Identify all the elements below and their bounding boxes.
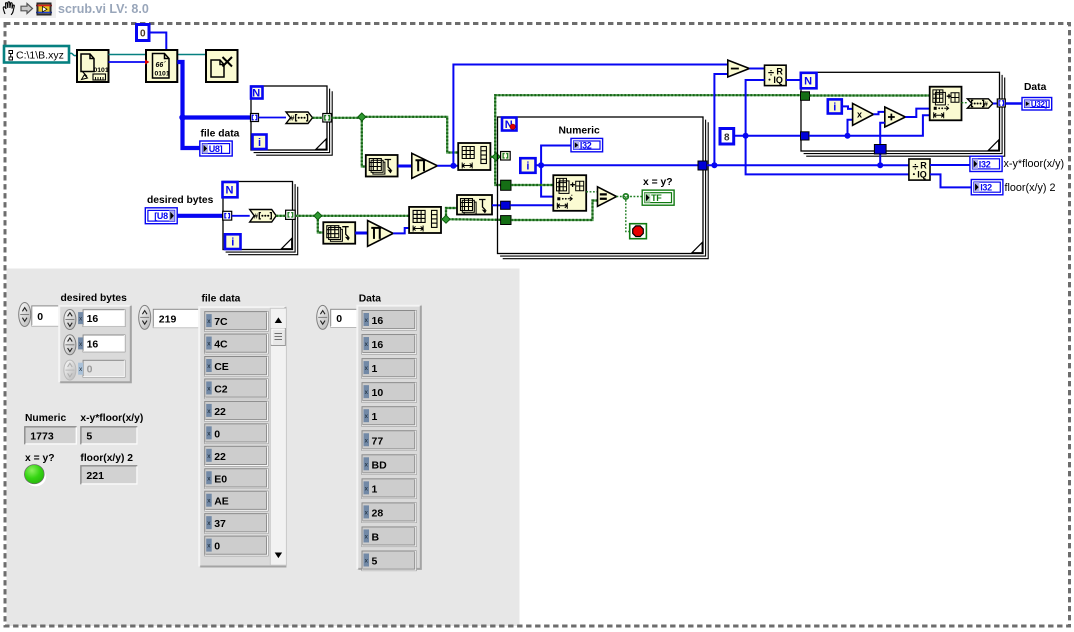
wire add output to search 2 xyxy=(905,109,929,117)
indicator file data [U8] xyxy=(200,141,232,156)
panel index control desired bytes xyxy=(19,303,31,327)
svg-text:0: 0 xyxy=(214,428,220,440)
front panel grey background xyxy=(7,269,520,627)
svg-text:scrub.vi LV: 8.0: scrub.vi LV: 8.0 xyxy=(58,2,149,16)
svg-text:0: 0 xyxy=(140,29,146,40)
Data element 16 row 0 xyxy=(362,311,416,331)
For loop FL1 frame xyxy=(256,91,332,155)
wire sizes to multiply xyxy=(398,165,412,168)
node Array Size A3 xyxy=(457,195,492,215)
svg-text:file data: file data xyxy=(201,129,240,140)
junction A xyxy=(358,113,366,121)
FL1 left tunnel xyxy=(251,114,259,122)
svg-text:16: 16 xyxy=(372,339,384,351)
svg-text:0101: 0101 xyxy=(155,71,170,78)
svg-text:floor(x/y) 2: floor(x/y) 2 xyxy=(80,453,133,464)
svg-text:0: 0 xyxy=(214,541,220,553)
svg-text:I32: I32 xyxy=(980,183,992,193)
svg-text:i: i xyxy=(258,137,261,149)
node Equal? E1 xyxy=(598,187,617,207)
svg-text:desired bytes: desired bytes xyxy=(61,293,128,304)
FL3 green tunnel xyxy=(801,92,810,101)
wire Q2 IQ to indicator 2 xyxy=(930,174,971,187)
svg-text:x = y?: x = y? xyxy=(25,453,54,464)
file data scrollbar xyxy=(270,308,286,565)
svg-text:TF: TF xyxy=(651,193,662,203)
FL3 right tunnel xyxy=(997,99,1005,107)
svg-text:16: 16 xyxy=(87,313,99,325)
svg-text:37: 37 xyxy=(214,518,226,530)
wire refnum open to read xyxy=(109,61,146,63)
panel display Numeric 1773 xyxy=(24,426,77,444)
WL i terminal xyxy=(520,158,535,173)
node Multiply Array Elements P2 xyxy=(368,221,394,247)
svg-text:x = y?: x = y? xyxy=(643,177,672,188)
node Multiply M1 xyxy=(853,103,874,125)
constant 0 (offset) xyxy=(137,25,150,41)
svg-text:I32: I32 xyxy=(979,159,991,169)
svg-text:5: 5 xyxy=(86,431,92,443)
FL2 right tunnel xyxy=(286,210,296,219)
wire S1 to equals xyxy=(586,191,597,193)
node Index Array S1 xyxy=(553,175,586,211)
wire to Data indicator xyxy=(1005,102,1022,105)
wire Q2 R to indicator xyxy=(930,164,970,166)
desired bytes element 2 xyxy=(64,360,76,380)
svg-text:Numeric: Numeric xyxy=(25,413,66,424)
FL3 i terminal xyxy=(828,99,842,113)
svg-text:22: 22 xyxy=(214,451,226,463)
svg-text:U32]: U32] xyxy=(1031,100,1048,109)
file data element 22 row 4 xyxy=(205,401,268,421)
wire desired bytes to FL2 xyxy=(177,214,223,218)
svg-text:Data: Data xyxy=(1024,82,1047,93)
svg-text:N: N xyxy=(252,88,260,100)
svg-text:desired bytes: desired bytes xyxy=(147,195,214,206)
control desired bytes [U8] xyxy=(145,208,177,224)
panel LED x=y? xyxy=(26,467,46,487)
indicator x=y? TF xyxy=(642,190,674,205)
wire reshaped array split xyxy=(490,156,501,158)
FL3 wire i to multiply xyxy=(842,106,853,109)
FL3 bottom tunnel xyxy=(874,145,886,155)
file data element AE row 8 xyxy=(205,491,268,511)
Data element 1 row 4 xyxy=(362,407,416,427)
svg-text:E0: E0 xyxy=(214,473,227,485)
svg-text:i: i xyxy=(526,161,529,173)
svg-text:0101: 0101 xyxy=(94,67,109,74)
node Array Size A2 xyxy=(323,222,355,244)
node Reshape Array R1 xyxy=(458,143,490,170)
hand (pan) tool icon xyxy=(3,2,14,15)
Data element 16 row 1 xyxy=(362,335,416,355)
Data element BD row 6 xyxy=(362,455,416,475)
panel array desired bytes xyxy=(59,305,132,384)
svg-text:x-y*floor(x/y): x-y*floor(x/y) xyxy=(80,413,143,424)
indicator floor(x/y) 2 I32 xyxy=(971,180,1003,195)
FL1 array size node xyxy=(286,112,313,124)
svg-text:7C: 7C xyxy=(214,316,228,328)
stop button terminal xyxy=(630,224,647,239)
run arrow icon xyxy=(21,3,33,13)
Data element 28 row 8 xyxy=(362,503,416,523)
Data element 5 row 10 xyxy=(362,551,416,571)
svg-text:BD: BD xyxy=(372,459,388,471)
wire boolean result xyxy=(617,196,644,198)
file data element 0 row 5 xyxy=(205,424,268,444)
WL N terminal with conditional dot xyxy=(502,118,517,131)
junction D xyxy=(442,215,450,223)
wire add bottom input from bottom tunnel xyxy=(880,123,885,166)
FL2 wire to array-size node xyxy=(232,215,250,217)
junction B xyxy=(492,153,500,161)
For loop FL3 frame xyxy=(806,78,1005,157)
svg-text:Numeric: Numeric xyxy=(559,126,600,137)
svg-text:1: 1 xyxy=(372,363,378,375)
Data element 1 row 7 xyxy=(362,479,416,499)
wire path squiggle xyxy=(69,53,77,56)
FL2 i terminal xyxy=(225,234,241,249)
FL3 wire green to search 2 xyxy=(810,94,930,96)
file data element 22 row 6 xyxy=(205,446,268,466)
FL2 left tunnel xyxy=(223,211,232,220)
Data element 1 row 2 xyxy=(362,359,416,379)
svg-text:N: N xyxy=(804,76,812,88)
For loop FL2 frame xyxy=(228,187,298,255)
svg-text:CE: CE xyxy=(214,361,229,373)
Data element 77 row 5 xyxy=(362,431,416,451)
wire Q1 to N of FL3 xyxy=(786,79,801,81)
svg-text:IQ: IQ xyxy=(773,75,783,85)
file data element 4C row 1 xyxy=(205,334,268,354)
wire element-array FL1 output xyxy=(331,117,362,119)
panel array Data xyxy=(357,305,422,570)
panel display 221 xyxy=(80,465,137,484)
node Open File U1 xyxy=(77,50,109,82)
svg-text:C2: C2 xyxy=(214,383,228,395)
file data element E0 row 7 xyxy=(205,469,268,489)
svg-text:AE: AE xyxy=(214,496,229,508)
FL1 N terminal xyxy=(251,87,263,99)
WL green tunnel 2 xyxy=(501,216,511,225)
file data element 0 row 10 xyxy=(205,536,268,556)
svg-text:0: 0 xyxy=(37,311,43,323)
path constant C:\1\B.xyz xyxy=(4,46,69,63)
svg-text:5: 5 xyxy=(372,556,378,568)
node Add M2 xyxy=(885,107,906,127)
wire green tunnel1 to search node xyxy=(511,184,553,186)
wire multiply to add xyxy=(874,112,885,114)
svg-text:I32: I32 xyxy=(580,141,592,151)
svg-text:1: 1 xyxy=(372,411,378,423)
WL left index tunnel xyxy=(501,152,511,161)
wire U8-array from read, down to loop FL1 and file data indicator xyxy=(177,62,250,118)
WL green tunnel 1 xyxy=(501,180,511,190)
svg-text:1773: 1773 xyxy=(30,431,54,443)
svg-text:[U8: [U8 xyxy=(154,211,168,221)
svg-text:0: 0 xyxy=(87,364,93,376)
VI file icon xyxy=(36,3,52,15)
Data element 10 row 3 xyxy=(362,383,416,403)
node Close File U3 xyxy=(206,50,238,82)
wire 0 to read count xyxy=(149,33,166,51)
wire 8 net xyxy=(746,80,909,174)
file data element 37 row 9 xyxy=(205,514,268,534)
file data element 7C row 0 xyxy=(205,312,268,332)
svg-text:Data: Data xyxy=(359,293,382,304)
svg-text:66´: 66´ xyxy=(156,62,167,69)
Data element B row 9 xyxy=(362,527,416,547)
file data element C2 row 3 xyxy=(205,379,268,399)
wire count: to reshape and up to subtract xyxy=(437,165,458,167)
node Read Binary File U2 xyxy=(146,50,177,82)
svg-text:B: B xyxy=(372,531,380,543)
FL2 array size node xyxy=(250,210,277,223)
svg-text:N: N xyxy=(226,185,234,197)
indicator x-y*floor(x/y) I32 xyxy=(970,156,1002,171)
panel display 5 xyxy=(80,426,137,444)
node Reshape Array R2 xyxy=(409,207,441,233)
svg-text:4C: 4C xyxy=(214,339,228,351)
node Multiply Array Elements P1 xyxy=(412,153,438,178)
svg-text:22: 22 xyxy=(214,406,226,418)
file data element CE row 2 xyxy=(205,357,268,377)
wire to quotient 1 xyxy=(749,68,764,70)
svg-text:10: 10 xyxy=(372,387,384,399)
wire R2 output split xyxy=(441,218,501,221)
FL3 blue tunnel xyxy=(801,132,810,140)
panel index control file data xyxy=(139,305,151,329)
wire WL result to quotient nodes xyxy=(707,164,909,166)
wire path: read to close xyxy=(177,54,206,56)
red coercion arrow at read input xyxy=(145,60,150,65)
For loop WL frame (conditional) xyxy=(503,122,709,259)
toolbar background strip xyxy=(0,0,56,18)
wire A3 to loop tunnel xyxy=(492,204,501,206)
FL3 wire 8 inside xyxy=(809,115,930,135)
svg-text:8: 8 xyxy=(724,133,730,144)
svg-text:IQ: IQ xyxy=(917,170,927,180)
panel index control Data xyxy=(317,305,329,329)
wire FL2 output split xyxy=(295,215,409,217)
desired bytes element 1 xyxy=(64,335,76,355)
svg-text:x: x xyxy=(857,110,862,120)
WL right tunnel xyxy=(698,161,707,170)
indicator Data [U32] xyxy=(1022,98,1052,111)
FL1 i terminal xyxy=(253,135,267,150)
svg-text:221: 221 xyxy=(86,470,104,482)
svg-text:28: 28 xyxy=(372,507,384,519)
node Index Array S2 xyxy=(930,87,962,121)
FL3 N terminal xyxy=(801,73,817,89)
svg-text:16: 16 xyxy=(87,338,99,350)
svg-text:16: 16 xyxy=(372,315,384,327)
svg-text:77: 77 xyxy=(372,435,384,447)
svg-text:219: 219 xyxy=(159,313,177,325)
wire blue tunnel to search node xyxy=(510,204,553,206)
WL blue tunnel xyxy=(501,201,511,209)
svg-text:file data: file data xyxy=(202,294,241,305)
svg-text:x-y*floor(x/y): x-y*floor(x/y) xyxy=(1004,158,1065,170)
panel array file data xyxy=(199,306,286,567)
wire i to right tunnel xyxy=(536,164,699,166)
node Quotient-Remainder Q1 xyxy=(765,65,787,85)
FL1 wire to array-size node xyxy=(259,117,287,119)
desired bytes element 0 xyxy=(64,310,76,330)
constant 8 xyxy=(720,129,734,145)
FL1 right tunnel xyxy=(323,114,332,123)
FL2 N terminal xyxy=(223,182,238,197)
wire sizes to multiply 2 xyxy=(355,232,367,235)
wire green tunnel2 to equals xyxy=(511,201,598,221)
svg-text:0: 0 xyxy=(336,313,342,325)
wire count to interleave xyxy=(393,228,409,233)
indicator Numeric I32 xyxy=(571,138,603,151)
node Array Size A1 xyxy=(366,155,398,177)
node Quotient-Remainder Q2 xyxy=(909,159,930,180)
svg-text:floor(x/y) 2: floor(x/y) 2 xyxy=(1005,182,1056,194)
wire path: open to read xyxy=(109,54,147,56)
svg-text:1: 1 xyxy=(372,483,378,495)
wire S2 to array size node xyxy=(962,102,968,104)
svg-text:C:\1\B.xyz: C:\1\B.xyz xyxy=(16,50,64,62)
node Decrement D1 xyxy=(728,60,750,77)
svg-text:i: i xyxy=(231,237,234,249)
wire to FL3 right tunnel xyxy=(993,103,997,105)
svg-text:U8]: U8] xyxy=(209,144,223,154)
junction C xyxy=(314,212,322,220)
FL3 array to size node xyxy=(967,99,993,108)
svg-text:i: i xyxy=(833,101,836,113)
